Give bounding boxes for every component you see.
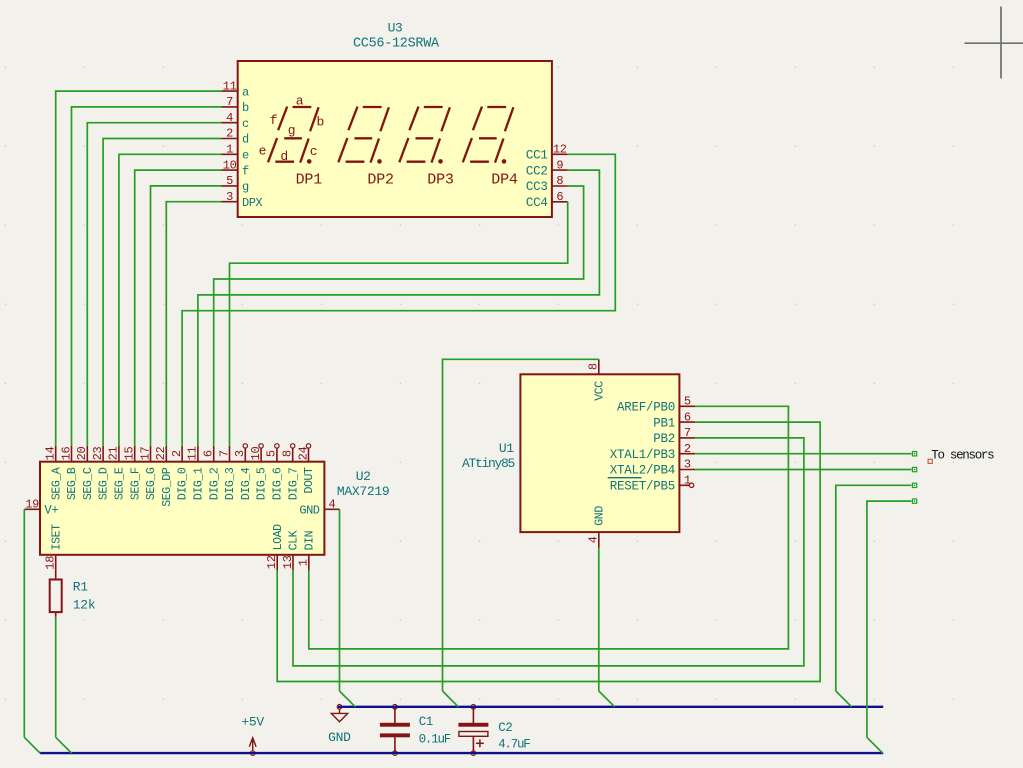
U2 pin CLK (13) (281, 530, 301, 570)
svg-text:C1: C1 (419, 715, 433, 729)
bus entry VCC (443, 691, 459, 707)
U2 pin SEG_B (16) (59, 446, 79, 500)
wire U3.DPX to U2.SEG_DP (166, 202, 221, 446)
U3 pin d (2) (222, 127, 250, 147)
ground symbol GND (331, 705, 347, 722)
svg-text:1: 1 (684, 474, 691, 488)
svg-text:13: 13 (281, 555, 295, 569)
svg-text:SEG_A: SEG_A (50, 467, 63, 500)
svg-text:SEG_G: SEG_G (145, 467, 158, 500)
svg-text:6: 6 (684, 410, 691, 424)
U3 pin c (4) (222, 111, 250, 131)
svg-text:RESET/PB5: RESET/PB5 (610, 480, 675, 494)
driver U2 body (40, 462, 324, 555)
U3 7-segment digit 3 (399, 107, 450, 164)
svg-text:DP3: DP3 (427, 171, 454, 188)
U2 pin SEG_A (14) (44, 446, 64, 500)
U3 7-segment digit 2 (338, 107, 389, 164)
resistor R1 (50, 580, 62, 617)
wire U2.V+ to +5V bus (23, 509, 25, 737)
bus entry U1 GND (599, 691, 615, 707)
wire U1.VCC to bus (443, 359, 599, 691)
svg-text:12: 12 (553, 143, 567, 157)
sheet cursor crosshair (965, 7, 1023, 79)
svg-text:c: c (242, 117, 249, 131)
bus entry V+ (24, 737, 40, 753)
svg-text:ISET: ISET (50, 524, 63, 551)
svg-text:SEG_D: SEG_D (98, 467, 111, 500)
svg-text:3: 3 (233, 450, 247, 457)
svg-text:3: 3 (226, 190, 233, 204)
wire U2.CLK to U1.PB2 (293, 438, 804, 666)
U2 pin SEG_D (23) (91, 446, 111, 500)
svg-text:18: 18 (44, 556, 58, 570)
display U3 body (238, 61, 552, 217)
U1 pin AREF/PB0 (5) (617, 395, 695, 415)
svg-text:DPX: DPX (242, 196, 262, 210)
svg-text:SEG_C: SEG_C (82, 467, 95, 500)
GND bus (upper blue) (338, 706, 883, 708)
dangling wire end terminal 1 (912, 452, 916, 456)
MCU U1 body (520, 374, 679, 532)
wire U3.CC1 to U2.DIG_0 (182, 154, 615, 446)
svg-text:20: 20 (75, 446, 89, 460)
svg-text:DIG_6: DIG_6 (272, 467, 285, 500)
svg-text:e: e (242, 149, 249, 163)
wire sensor GND feed (836, 485, 912, 691)
DP1-DP4 labels (296, 171, 518, 188)
U3 pin CC3 (8) (526, 174, 568, 194)
svg-text:DIG_0: DIG_0 (177, 467, 190, 500)
svg-text:b: b (242, 101, 249, 115)
wire U2.GND down (339, 509, 341, 691)
svg-text:g: g (242, 180, 249, 194)
U1 pin RESET/PB5 (1) (608, 474, 694, 494)
svg-text:17: 17 (138, 446, 152, 460)
dangling wire end terminal 3 (912, 483, 916, 487)
U1 pin GND (4) (587, 506, 607, 548)
wire U3.g to U2.SEG_G (151, 186, 222, 446)
wire U3.e to U2.SEG_E (119, 154, 222, 446)
U3 pin f (10) (222, 158, 250, 178)
U2 pin DIG_1 (11) (186, 446, 206, 500)
U2 pin GND (4) (299, 498, 339, 518)
U1 pin VCC (8) (587, 359, 607, 401)
svg-text:CC4: CC4 (526, 196, 548, 210)
wire U3.CC4 to U2.DIG_3 (230, 202, 568, 446)
svg-text:To sensors: To sensors (931, 449, 994, 463)
U3 pin b (7) (222, 95, 250, 115)
svg-text:R1: R1 (73, 580, 89, 595)
svg-text:11: 11 (186, 446, 200, 460)
wire U2.LOAD to U1.PB1 (277, 422, 820, 681)
svg-text:DIG_5: DIG_5 (256, 467, 269, 500)
svg-text:CC56-12SRWA: CC56-12SRWA (353, 37, 440, 52)
svg-text:c: c (310, 144, 317, 159)
U2 pin SEG_DP (22) (154, 446, 174, 507)
U3 pin g (5) (222, 174, 250, 194)
U1 pin PB2 (7) (653, 426, 695, 446)
U2 pin DIG_2 (6) (202, 446, 222, 500)
wire U3.b to U2.SEG_B (72, 107, 222, 446)
svg-text:V+: V+ (44, 504, 58, 518)
U2 pin DOUT (24) (296, 444, 316, 494)
svg-text:g: g (288, 123, 295, 138)
svg-text:DIG_7: DIG_7 (287, 467, 300, 500)
svg-text:DP2: DP2 (367, 171, 393, 188)
svg-text:GND: GND (593, 506, 606, 526)
svg-text:U3: U3 (388, 21, 403, 36)
svg-text:2: 2 (170, 450, 184, 457)
bus entry sensor +5V (867, 737, 883, 753)
svg-text:C2: C2 (498, 721, 512, 735)
U3 pin DPX (3) (222, 190, 263, 210)
svg-text:7: 7 (684, 426, 691, 440)
svg-text:6: 6 (202, 450, 216, 457)
svg-text:PB2: PB2 (653, 432, 675, 446)
U2 pin DIG_5 (10) (249, 444, 269, 500)
dangling wire end terminal 4 (912, 499, 916, 503)
U2 pin DIG_7 (8) (281, 444, 301, 500)
svg-text:AREF/PB0: AREF/PB0 (617, 401, 675, 415)
digit 1 segment letter labels (259, 93, 324, 163)
svg-text:21: 21 (107, 446, 121, 460)
U1 pin XTAL2/PB4 (3) (610, 458, 695, 478)
svg-text:24: 24 (296, 446, 310, 460)
svg-text:ATtiny85: ATtiny85 (462, 456, 515, 471)
svg-text:PB1: PB1 (653, 416, 675, 430)
svg-text:4.7uF: 4.7uF (498, 738, 530, 752)
svg-text:SEG_F: SEG_F (129, 467, 142, 500)
svg-text:DIN: DIN (303, 530, 316, 550)
svg-text:7: 7 (226, 95, 233, 109)
capacitor C2 (polarized) (458, 705, 488, 756)
svg-text:+5V: +5V (241, 715, 264, 730)
svg-text:LOAD: LOAD (272, 524, 285, 551)
svg-text:SEG_B: SEG_B (66, 467, 79, 500)
svg-text:14: 14 (44, 446, 58, 460)
U3 pin CC2 (9) (526, 158, 568, 178)
U2 pin ISET (18) (44, 524, 64, 580)
wire U1.GND down (598, 548, 600, 691)
U2 pin V+ (19) (24, 498, 58, 518)
svg-text:CC2: CC2 (526, 164, 548, 178)
svg-text:XTAL2/PB4: XTAL2/PB4 (610, 464, 675, 478)
U2 pin DIG_4 (3) (233, 444, 253, 500)
svg-text:CC3: CC3 (526, 180, 548, 194)
svg-text:e: e (259, 143, 266, 158)
wire sensor +5V feed (867, 501, 912, 737)
U2 pin SEG_G (17) (138, 446, 158, 500)
svg-text:3: 3 (684, 458, 691, 472)
svg-text:10: 10 (249, 446, 263, 460)
wire U3.a to U2.SEG_A (56, 91, 222, 446)
svg-text:2: 2 (226, 127, 233, 141)
svg-text:DIG_4: DIG_4 (240, 467, 253, 500)
svg-text:4: 4 (587, 536, 601, 543)
svg-text:DOUT: DOUT (303, 467, 316, 494)
wire U3.CC2 to U2.DIG_1 (198, 170, 600, 446)
U2 pin SEG_E (21) (107, 446, 127, 500)
svg-text:2: 2 (684, 442, 691, 456)
wire U3.CC3 to U2.DIG_2 (214, 186, 584, 446)
svg-text:f: f (242, 164, 249, 178)
U3 pin a (11) (222, 79, 250, 99)
svg-text:MAX7219: MAX7219 (337, 484, 390, 499)
bus entry U2 GND (340, 691, 356, 707)
node To sensors label (928, 449, 994, 464)
svg-text:VCC: VCC (593, 381, 606, 401)
svg-text:d: d (280, 149, 287, 164)
svg-text:12: 12 (265, 555, 279, 569)
U2 pin DIG_0 (2) (170, 446, 190, 500)
U2 pin SEG_F (15) (123, 446, 143, 500)
svg-text:5: 5 (226, 174, 233, 188)
svg-text:4: 4 (226, 111, 233, 125)
power symbol +5V (249, 738, 256, 756)
U3 7-segment digit 1 (268, 107, 319, 164)
svg-text:CC1: CC1 (526, 149, 548, 163)
wire R1 to +5V bus (55, 617, 57, 738)
svg-text:12k: 12k (73, 597, 96, 612)
svg-text:a: a (296, 93, 304, 108)
svg-text:6: 6 (556, 190, 563, 204)
capacitor C1 (380, 705, 410, 756)
wire U3.f to U2.SEG_F (135, 170, 222, 446)
+5V bus (lower blue) (40, 752, 883, 754)
U1 pin PB1 (6) (653, 410, 695, 430)
svg-text:8: 8 (281, 450, 295, 457)
svg-text:7: 7 (217, 450, 231, 457)
svg-text:19: 19 (25, 498, 39, 512)
svg-text:SEG_E: SEG_E (114, 467, 127, 500)
svg-text:8: 8 (587, 363, 601, 370)
svg-text:XTAL1/PB3: XTAL1/PB3 (610, 448, 675, 462)
svg-text:15: 15 (123, 446, 137, 460)
svg-text:f: f (270, 113, 277, 128)
U2 pin SEG_C (20) (75, 446, 95, 500)
U3 7-segment digit 4 (463, 107, 514, 164)
svg-text:23: 23 (91, 446, 105, 460)
svg-text:5: 5 (684, 395, 691, 409)
svg-text:1: 1 (297, 559, 311, 566)
svg-text:U2: U2 (356, 469, 371, 484)
U1 pin XTAL1/PB3 (2) (610, 442, 695, 462)
U2 pin DIG_6 (5) (265, 444, 285, 500)
wire U3.c to U2.SEG_C (87, 123, 221, 446)
svg-text:10: 10 (223, 158, 237, 172)
U2 pin DIN (1) (297, 530, 317, 570)
svg-text:SEG_DP: SEG_DP (161, 467, 174, 507)
svg-text:DP4: DP4 (491, 171, 518, 188)
U2 pin LOAD (12) (265, 524, 285, 571)
svg-text:DP1: DP1 (296, 171, 323, 188)
U3 pin e (1) (222, 143, 250, 163)
svg-text:4: 4 (329, 498, 336, 512)
svg-text:b: b (316, 115, 323, 130)
wire U1.XTAL2/PB4 to sensors (695, 469, 911, 471)
wire U3.d to U2.SEG_D (103, 139, 221, 446)
svg-text:22: 22 (154, 446, 168, 460)
U3 pin CC1 (12) (526, 143, 568, 163)
svg-text:GND: GND (328, 730, 351, 745)
svg-text:DIG_3: DIG_3 (224, 467, 237, 500)
U2 pin DIG_3 (7) (217, 446, 237, 500)
svg-text:16: 16 (59, 446, 73, 460)
dangling wire end terminal 2 (912, 467, 916, 471)
bus entry sensor GND (836, 691, 852, 707)
svg-text:0.1uF: 0.1uF (419, 733, 451, 747)
wire U1.XTAL1/PB3 to sensors (695, 453, 911, 455)
svg-text:DIG_1: DIG_1 (193, 467, 206, 500)
U3 pin CC4 (6) (526, 190, 568, 210)
svg-text:d: d (242, 133, 249, 147)
svg-text:GND: GND (299, 504, 319, 518)
wire U2.DIN to U1.AREF/PB0 (309, 406, 789, 649)
svg-text:1: 1 (226, 143, 233, 157)
bus entry R1 (56, 737, 72, 753)
svg-text:8: 8 (556, 174, 563, 188)
svg-text:5: 5 (265, 450, 279, 457)
svg-text:U1: U1 (499, 441, 514, 456)
svg-text:11: 11 (223, 79, 237, 93)
svg-text:DIG_2: DIG_2 (208, 467, 221, 500)
svg-text:a: a (242, 85, 249, 99)
svg-text:9: 9 (556, 158, 563, 172)
svg-text:CLK: CLK (288, 530, 301, 550)
